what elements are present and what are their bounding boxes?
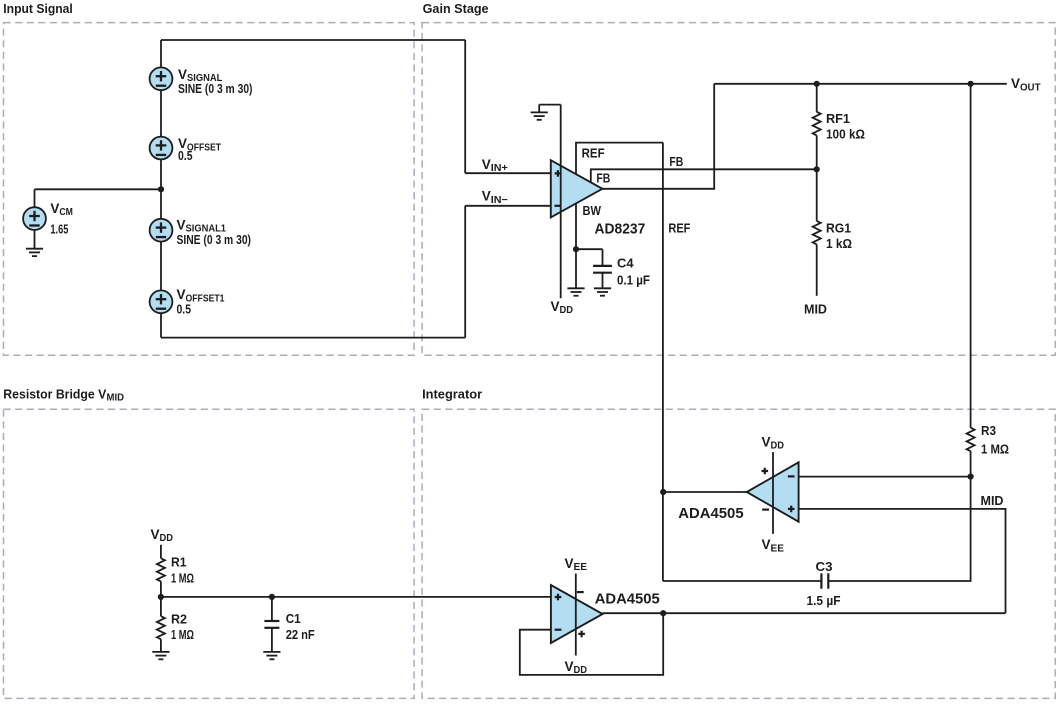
wire source chain bottom	[161, 337, 465, 339]
wire VIN+ to amp	[465, 172, 551, 174]
svg-text:V: V	[177, 217, 186, 232]
resistor R2	[157, 597, 165, 652]
svg-text:V: V	[178, 67, 187, 82]
svg-text:R2: R2	[171, 611, 187, 626]
wire top output rail	[714, 83, 1007, 85]
node output VOUT column	[968, 81, 974, 87]
pin + of AD8237	[555, 170, 562, 177]
svg-text:V: V	[151, 527, 160, 542]
op-amp U3 ADA4505 buffer	[551, 585, 603, 643]
svg-text:V: V	[482, 189, 491, 204]
wire buffer supply	[575, 574, 577, 656]
voltage source VOFFSET	[150, 137, 173, 160]
supply minus mark buffer	[577, 591, 584, 593]
capacitor C4	[593, 266, 612, 273]
ground C1	[263, 652, 280, 659]
svg-text:V: V	[482, 157, 491, 172]
svg-text:AD8237: AD8237	[595, 221, 646, 238]
wire MID line to buffer	[161, 596, 551, 598]
op-amp U2 ADA4505 integrator	[747, 462, 799, 521]
wire C3 left lead	[663, 580, 822, 582]
wire BW stub	[575, 203, 577, 288]
svg-text:MID: MID	[804, 301, 827, 316]
svg-text:V: V	[1011, 76, 1020, 91]
wire AD8237 supply vertical	[560, 105, 562, 299]
svg-text:FB: FB	[669, 154, 683, 169]
wire buffer feedback	[520, 613, 663, 675]
svg-text:ADA4505: ADA4505	[595, 590, 660, 607]
svg-text:IN+: IN+	[491, 163, 508, 174]
svg-text:V: V	[565, 659, 574, 674]
wire source chain segments	[160, 40, 162, 338]
wire VCM horizontal	[35, 188, 162, 190]
supply plus mark buffer	[578, 631, 585, 638]
wire buffer output	[603, 612, 1006, 614]
svg-text:C4: C4	[617, 256, 634, 271]
svg-text:1.5 µF: 1.5 µF	[807, 593, 841, 608]
ground C4	[594, 288, 611, 295]
svg-text:V: V	[551, 299, 560, 314]
wire C4 tap	[576, 249, 603, 266]
svg-text:Gain Stage: Gain Stage	[423, 1, 489, 16]
svg-text:ADA4505: ADA4505	[678, 505, 743, 522]
node bridge mid	[158, 594, 164, 600]
capacitor C3	[821, 573, 828, 588]
svg-text:Integrator: Integrator	[422, 387, 482, 402]
wire AD8237 output up	[602, 84, 714, 189]
svg-text:FB: FB	[596, 171, 610, 186]
svg-text:1 MΩ: 1 MΩ	[171, 570, 194, 585]
supply plus mark integrator	[762, 468, 769, 475]
node C1 tap	[269, 594, 275, 600]
wire REF pin loop	[576, 143, 663, 175]
wire VDD stem	[160, 545, 162, 559]
wire integrator supply	[772, 452, 774, 534]
wire integrator minus input	[799, 476, 971, 478]
wire ground jog AD8237	[539, 105, 561, 113]
svg-text:SINE (0 3 m 30): SINE (0 3 m 30)	[177, 232, 252, 247]
node buffer output	[660, 610, 666, 616]
svg-text:V: V	[762, 537, 771, 552]
voltage source VCM	[23, 207, 46, 230]
wire right vertical upper	[464, 40, 466, 173]
section box Input Signal	[4, 23, 415, 356]
svg-text:0.1 µF: 0.1 µF	[617, 273, 650, 288]
resistor R1	[157, 558, 165, 597]
wire right vertical lower	[464, 206, 466, 338]
voltage source VSIGNAL1	[150, 219, 173, 242]
svg-text:100 kΩ: 100 kΩ	[826, 127, 865, 142]
svg-text:0.5: 0.5	[178, 148, 193, 163]
voltage source VOFFSET1	[150, 290, 173, 313]
svg-text:RF1: RF1	[826, 111, 850, 126]
wire integrator plus input	[799, 509, 1006, 613]
pin + of integrator	[788, 506, 795, 513]
section box Integrator	[422, 409, 1055, 698]
wire integrator output	[663, 491, 747, 493]
capacitor C1	[264, 621, 279, 628]
ground AD8237 top	[531, 112, 548, 119]
node BW C4	[573, 246, 579, 252]
svg-text:1.65: 1.65	[50, 221, 68, 236]
section box Resistor Bridge VMID	[4, 409, 415, 698]
wire C3 right lead	[828, 477, 970, 581]
resistor RG1	[813, 169, 821, 295]
wire C4 lower lead	[602, 273, 604, 289]
svg-text:REF: REF	[582, 146, 605, 161]
svg-text:MID: MID	[107, 393, 125, 404]
svg-text:1 MΩ: 1 MΩ	[171, 627, 194, 642]
svg-text:V: V	[50, 201, 59, 216]
svg-text:1 MΩ: 1 MΩ	[981, 442, 1009, 457]
voltage source VSIGNAL	[150, 67, 173, 90]
node junction VCM	[158, 186, 164, 192]
svg-text:DD: DD	[160, 533, 174, 544]
wire source chain top	[161, 39, 465, 41]
wire VIN- to amp	[465, 205, 551, 207]
wire FB stub	[591, 169, 817, 182]
svg-text:OFFSET1: OFFSET1	[186, 293, 225, 304]
svg-text:MID: MID	[981, 493, 1004, 508]
svg-text:SINE (0 3 m 30): SINE (0 3 m 30)	[178, 81, 253, 96]
node integrator minus	[968, 474, 974, 480]
node integrator output	[660, 489, 666, 495]
svg-text:BW: BW	[583, 203, 602, 218]
resistor R3	[967, 428, 975, 477]
wire C1 lower lead	[271, 628, 273, 652]
node output RF1	[814, 81, 820, 87]
ground BW	[567, 288, 584, 295]
node FB RF1 RG1	[814, 166, 820, 172]
wire VOUT column upper	[970, 84, 972, 428]
resistor RF1	[813, 84, 821, 170]
svg-text:V: V	[762, 435, 771, 450]
svg-text:C1: C1	[286, 611, 301, 626]
svg-text:R3: R3	[981, 423, 996, 438]
svg-text:CM: CM	[59, 207, 73, 218]
svg-text:V: V	[177, 287, 186, 302]
svg-text:0.5: 0.5	[177, 302, 192, 317]
svg-text:OUT: OUT	[1020, 82, 1041, 93]
ground R2	[152, 652, 169, 659]
wire VCM stem	[34, 189, 36, 248]
svg-text:1 kΩ: 1 kΩ	[826, 236, 852, 251]
section box Gain Stage	[422, 23, 1055, 356]
svg-text:RG1: RG1	[826, 221, 851, 236]
supply minus mark integrator	[762, 509, 769, 511]
wire C1 upper lead	[271, 597, 273, 621]
svg-text:REF: REF	[668, 221, 690, 236]
svg-text:EE: EE	[771, 543, 785, 554]
pin - of buffer	[555, 629, 562, 631]
svg-text:DD: DD	[560, 305, 574, 316]
pin + of buffer	[555, 594, 562, 601]
svg-text:22 nF: 22 nF	[286, 627, 315, 642]
svg-text:Input Signal: Input Signal	[3, 1, 73, 16]
ground VCM	[26, 249, 43, 256]
op-amp U1 AD8237	[551, 160, 603, 217]
svg-text:DD: DD	[771, 441, 785, 452]
wire REF vertical to integrator	[662, 143, 664, 581]
pin - of AD8237	[555, 205, 562, 207]
svg-text:C3: C3	[816, 559, 833, 574]
svg-text:Resistor Bridge V: Resistor Bridge V	[3, 387, 106, 402]
svg-text:R1: R1	[171, 555, 187, 570]
svg-text:V: V	[565, 556, 574, 571]
pin - of integrator	[788, 475, 795, 477]
svg-text:IN−: IN−	[491, 195, 508, 206]
svg-text:EE: EE	[574, 562, 588, 573]
